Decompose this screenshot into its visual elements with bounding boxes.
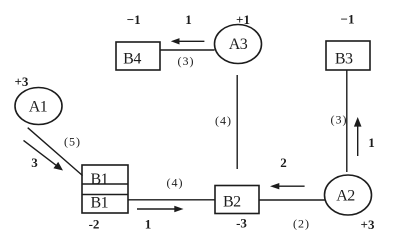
svg-text:1: 1 <box>185 12 192 27</box>
svg-text:1: 1 <box>145 217 152 232</box>
svg-text:(4): (4) <box>167 176 184 190</box>
svg-text:1: 1 <box>368 135 375 150</box>
svg-text:(2): (2) <box>293 217 310 231</box>
svg-text:A3: A3 <box>229 36 248 53</box>
svg-text:B4: B4 <box>123 51 141 68</box>
svg-text:A1: A1 <box>29 99 48 116</box>
svg-text:A2: A2 <box>336 188 355 205</box>
svg-text:+1: +1 <box>236 12 250 27</box>
svg-text:B1: B1 <box>90 171 108 188</box>
svg-text:(5): (5) <box>64 135 81 149</box>
svg-text:−1: −1 <box>127 12 141 27</box>
svg-text:3: 3 <box>31 155 38 170</box>
svg-text:+3: +3 <box>361 217 375 232</box>
svg-text:+3: +3 <box>14 74 28 89</box>
svg-text:-3: -3 <box>236 216 247 231</box>
svg-text:B1: B1 <box>90 194 108 211</box>
svg-text:B3: B3 <box>335 51 353 68</box>
svg-text:−1: −1 <box>341 12 355 27</box>
svg-text:2: 2 <box>280 155 287 170</box>
svg-text:(3): (3) <box>331 113 348 127</box>
svg-text:B2: B2 <box>223 194 241 211</box>
svg-text:-2: -2 <box>89 217 100 232</box>
svg-text:(4): (4) <box>215 114 232 128</box>
svg-text:(3): (3) <box>178 54 195 68</box>
